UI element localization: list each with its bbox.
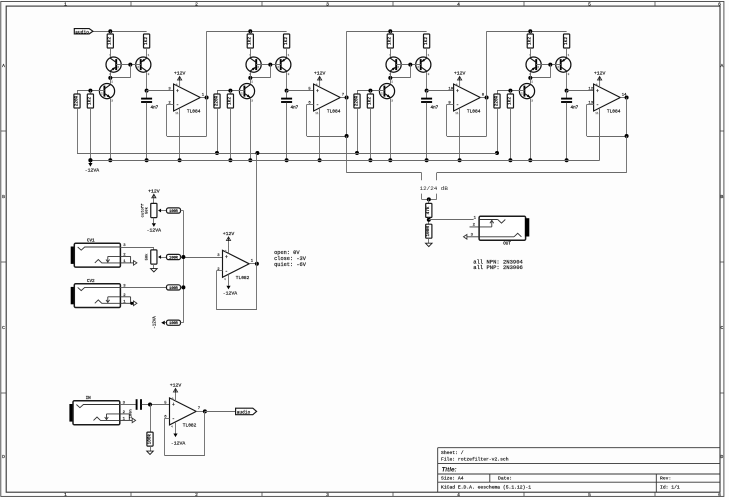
- svg-text:-: -: [172, 416, 175, 422]
- transistor Q2a (PNP): [246, 54, 261, 76]
- transistor Q4b (PNP): [556, 54, 571, 76]
- resistor R2a 1k2: [247, 34, 253, 48]
- transistor Q4a (PNP): [526, 54, 541, 76]
- node stage 4 output junction: [625, 96, 629, 100]
- svg-text:-: -: [456, 102, 459, 108]
- resistor R4d 1k2: [507, 94, 513, 108]
- wire R4b to Q4b: [566, 48, 568, 57]
- wire Q3c emitter to -12VA bus: [390, 99, 392, 161]
- svg-text:-12VA: -12VA: [147, 228, 162, 234]
- resistor R2d 1k2: [227, 94, 233, 108]
- op-amp TL082: [164, 394, 200, 429]
- node op-amp V- bus junction stage 3: [458, 158, 462, 162]
- svg-text:3: 3: [326, 492, 329, 498]
- wire Q1c emitter to -12VA bus: [110, 99, 112, 161]
- power +12V: [594, 71, 606, 81]
- node R2d bus junction: [228, 158, 232, 162]
- svg-text:-12VA: -12VA: [153, 316, 157, 329]
- resistor Rout1 47k: [426, 203, 432, 217]
- node stage 2 tap junction: [345, 134, 349, 138]
- wire Rc top lead stage 3: [357, 91, 359, 94]
- node stage 1 mirror junction: [108, 76, 112, 80]
- transistor Q1a (PNP): [106, 54, 121, 76]
- wire C3 to -12VA bus: [426, 103, 428, 160]
- resistor R1a 1k2: [107, 34, 113, 48]
- title block outline: [438, 448, 720, 493]
- wire Rout2 to ground: [428, 238, 430, 243]
- node R4d bus junction: [508, 158, 512, 162]
- wire Rcv2 to TL082 pin3: [181, 257, 223, 259]
- wire Q4a emitter: [530, 72, 532, 78]
- wire Q1b emitter: [146, 72, 148, 91]
- svg-text:CV2: CV2: [87, 279, 95, 284]
- node CV sum junction 2: [181, 285, 185, 289]
- svg-text:50k: 50k: [144, 206, 149, 214]
- wire output to audio label: [205, 411, 236, 413]
- resistor Rcv3 100R: [167, 285, 181, 291]
- wire feedback stage 1: [167, 104, 174, 106]
- wire cap to op-amp: [142, 404, 170, 406]
- svg-text:OUT: OUT: [503, 242, 511, 246]
- svg-text:11: 11: [175, 112, 179, 115]
- resistor R4b 1k2: [564, 34, 570, 48]
- wire IN pin3 to cap: [120, 404, 136, 406]
- capacitor C2 4n7: [281, 99, 299, 111]
- wire Rc top lead stage 2: [217, 91, 219, 94]
- svg-text:Size: A4: Size: A4: [441, 476, 464, 482]
- resistor R2c 220R: [214, 94, 220, 108]
- wire R2d to -12VA bus: [230, 108, 232, 160]
- wire resistor 390.3 top lead: [390, 31, 392, 34]
- resistor R3b 1k2: [424, 34, 430, 48]
- ground: [151, 269, 158, 272]
- svg-text:6: 6: [718, 492, 721, 498]
- svg-text:12: 12: [588, 88, 593, 92]
- wire Q1a emitter: [110, 72, 112, 78]
- svg-text:1k2: 1k2: [284, 37, 289, 45]
- power -12VA: [223, 286, 238, 297]
- node R3c CV bus junction: [355, 151, 359, 155]
- wire base row stage 3: [357, 90, 384, 92]
- wire Q4c emitter to -12VA bus: [530, 99, 532, 161]
- wire -12VA bus end up to stage4 V-: [599, 108, 601, 160]
- wire base link stage 1: [116, 64, 141, 66]
- resistor R3d 1k2: [367, 94, 373, 108]
- wire CV feed up to bus: [256, 153, 258, 264]
- svg-text:1k2: 1k2: [228, 97, 233, 105]
- wire -12VA bus horizontal: [90, 160, 599, 162]
- svg-text:A: A: [2, 63, 5, 69]
- op-amp TL082: [217, 247, 253, 282]
- node stage 4 tap junction: [625, 134, 629, 138]
- svg-text:B: B: [721, 194, 724, 200]
- wire output up to next stage 1: [206, 31, 208, 97]
- wire Q2b emitter: [286, 72, 288, 91]
- svg-text:100R: 100R: [169, 210, 178, 214]
- svg-text:1k2: 1k2: [388, 37, 393, 45]
- svg-text:5: 5: [588, 492, 591, 498]
- resistor R1d 1k2: [87, 94, 93, 108]
- svg-text:Title:: Title:: [442, 467, 457, 474]
- node C1 bus junction: [145, 158, 149, 162]
- svg-text:50k: 50k: [144, 253, 149, 261]
- wire resistor 250.3 top lead: [250, 31, 252, 34]
- transistor Q2c (NPN): [239, 81, 254, 103]
- op-amp TL084: [308, 80, 344, 115]
- transistor Q3c (NPN): [379, 81, 394, 103]
- potentiometer RV cv1 50k: [144, 250, 161, 264]
- svg-text:-12VA: -12VA: [85, 167, 100, 173]
- wire op-amp output stage 3: [480, 97, 486, 99]
- transistor Q4c (NPN): [519, 81, 534, 103]
- node stage 1 base junction: [128, 63, 132, 67]
- svg-text:5: 5: [588, 1, 591, 7]
- node stage 4 mirror junction: [528, 76, 532, 80]
- node Q3c emitter bus junction: [388, 158, 392, 162]
- power +12V: [223, 231, 235, 247]
- wire -12VA trim to resistor: [165, 322, 167, 324]
- wire R3c to CV bus: [357, 108, 359, 153]
- svg-text:+12V: +12V: [148, 188, 160, 194]
- power +12V: [170, 383, 182, 395]
- svg-text:4n7: 4n7: [431, 105, 439, 110]
- wire Rd top lead stage 3: [370, 91, 372, 94]
- wire C2 to -12VA bus: [286, 103, 288, 160]
- svg-text:+12V: +12V: [223, 231, 235, 237]
- wire top feed stage 3: [347, 31, 427, 33]
- svg-text:+: +: [172, 402, 175, 408]
- wire Rd top lead stage 1: [90, 91, 92, 94]
- wire TL082b V-: [175, 422, 177, 434]
- svg-text:1: 1: [64, 492, 67, 498]
- wire Q2a emitter: [250, 72, 252, 78]
- capacitor C input 100n: [137, 399, 141, 410]
- node stage 1 base-resistor junction: [88, 89, 92, 93]
- node stage 4 input junction: [528, 29, 532, 33]
- node op-amp V- bus junction stage 2: [318, 158, 322, 162]
- node stage 2 input junction: [248, 29, 252, 33]
- transistor Q3a (PNP): [386, 54, 401, 76]
- wire base junction down: [550, 65, 552, 78]
- svg-text:11: 11: [315, 112, 319, 115]
- node Q2c emitter bus junction: [248, 158, 252, 162]
- svg-text:1k2: 1k2: [368, 97, 373, 105]
- svg-text:TL082: TL082: [236, 275, 250, 281]
- svg-text:Date:: Date:: [498, 476, 512, 482]
- wire cap top lead stage 4: [566, 91, 568, 98]
- wire resistor 110.3 top lead: [110, 31, 112, 34]
- frame row ticks: [1, 131, 724, 393]
- op-amp TL084: [168, 80, 204, 115]
- svg-text:+: +: [176, 88, 179, 94]
- svg-text:12/24 dB: 12/24 dB: [420, 185, 449, 192]
- wire C4 to -12VA bus: [566, 103, 568, 160]
- wire to R out top: [428, 199, 430, 203]
- wire output to jack: [429, 219, 474, 221]
- svg-text:+12V: +12V: [454, 71, 466, 77]
- transistor Q1c (NPN): [99, 81, 114, 103]
- svg-text:Id: 1/1: Id: 1/1: [660, 484, 680, 490]
- wire Rcv1 to CV sum bus: [181, 210, 184, 212]
- svg-text:C: C: [721, 325, 724, 331]
- wire Rcv3 to CV sum bus: [181, 287, 184, 289]
- svg-text:quiet: -6V: quiet: -6V: [274, 262, 307, 268]
- frame column ticks top: [131, 2, 655, 497]
- svg-text:audio: audio: [237, 411, 251, 416]
- global label audio (output): [236, 408, 257, 415]
- svg-text:4: 4: [457, 492, 460, 498]
- svg-text:220R: 220R: [74, 95, 79, 106]
- svg-text:47k: 47k: [426, 206, 431, 214]
- svg-text:File: rotzefilter-v2.sch: File: rotzefilter-v2.sch: [441, 456, 509, 462]
- svg-text:3: 3: [326, 1, 329, 7]
- svg-text:+: +: [225, 255, 228, 261]
- node stage 2 signal node: [285, 89, 289, 93]
- wire output up to next stage 3: [486, 31, 488, 97]
- no-connect arrow OUT pin3: [464, 235, 467, 240]
- wire CV sum bus vertical: [183, 211, 185, 323]
- wire output up to next stage 2: [346, 31, 348, 97]
- wire CV bus horizontal: [77, 153, 497, 155]
- resistor Rcv4 100R: [167, 320, 181, 326]
- svg-text:KiCad E.D.A. eeschema (5.1.12: KiCad E.D.A. eeschema (5.1.12)-1: [441, 484, 531, 490]
- jack CV1: [71, 239, 137, 267]
- power -12VA trim feed: [153, 316, 165, 329]
- wire Rc top lead stage 1: [77, 91, 79, 94]
- wire CV1 pin3 to pot: [120, 247, 153, 249]
- svg-text:100k: 100k: [147, 433, 152, 444]
- node TL082a output junction: [255, 262, 259, 266]
- svg-text:100n: 100n: [129, 409, 133, 418]
- resistor R3a 1k2: [387, 34, 393, 48]
- wire R3a to Q3a: [390, 48, 392, 57]
- node stage 2 output junction: [345, 96, 349, 100]
- wire base junction down: [410, 65, 412, 78]
- wire Q1c collector: [110, 78, 112, 84]
- wire R1b to Q1b: [146, 48, 148, 57]
- wire base junction down: [130, 65, 132, 78]
- resistor Rout2 100R: [426, 224, 432, 238]
- node stage 1 signal node: [145, 89, 149, 93]
- power -12VA bus flag: [85, 160, 100, 173]
- node -12VA start junction: [88, 158, 92, 162]
- node stage 3 signal node: [425, 89, 429, 93]
- svg-text:100R: 100R: [169, 287, 178, 291]
- svg-text:TL084: TL084: [467, 109, 481, 115]
- node Q1c emitter bus junction: [108, 158, 112, 162]
- svg-text:-12VA: -12VA: [223, 291, 238, 297]
- node CV sum junction 1: [181, 255, 185, 259]
- wire 24dB tap: [626, 136, 628, 173]
- svg-text:1k2: 1k2: [564, 37, 569, 45]
- jack CV2: [71, 279, 137, 307]
- node stage 1 output junction: [205, 96, 209, 100]
- svg-text:+12V: +12V: [170, 383, 182, 389]
- svg-text:D: D: [721, 454, 724, 460]
- wire R4c to CV bus: [497, 108, 499, 153]
- svg-text:1k2: 1k2: [248, 37, 253, 45]
- wire Q2c emitter to -12VA bus: [250, 99, 252, 161]
- title block texts: [441, 450, 680, 490]
- op-amp TL084: [448, 80, 484, 115]
- svg-text:10: 10: [448, 88, 453, 92]
- wire base junction down: [270, 65, 272, 78]
- wire cutoff pot to -12VA: [153, 218, 155, 224]
- wire cap top lead stage 3: [426, 91, 428, 98]
- svg-text:2: 2: [195, 1, 198, 7]
- svg-text:-: -: [176, 102, 179, 108]
- svg-text:2: 2: [195, 492, 198, 498]
- svg-text:+: +: [596, 88, 599, 94]
- svg-text:4: 4: [457, 1, 460, 7]
- svg-text:D: D: [2, 454, 5, 460]
- svg-text:11: 11: [455, 112, 459, 115]
- svg-text:C: C: [2, 325, 5, 331]
- wire resistor 530.3 top lead: [530, 31, 532, 34]
- svg-text:4n7: 4n7: [151, 105, 159, 110]
- node stage 3 base-resistor junction: [368, 89, 372, 93]
- svg-text:220R: 220R: [494, 95, 499, 106]
- wire cutoff wiper: [161, 210, 167, 212]
- wire Q4b emitter: [566, 72, 568, 91]
- resistor Rcv1 100R: [167, 208, 181, 214]
- wire R1d to -12VA bus: [90, 108, 92, 160]
- wire Rcv4 to CV sum bus: [181, 322, 184, 324]
- svg-text:1k2: 1k2: [424, 37, 429, 45]
- node stage 2 base-resistor junction: [228, 89, 232, 93]
- node stage 3 base junction: [408, 63, 412, 67]
- potentiometer RV cutoff 50k: [140, 203, 161, 218]
- resistor R4a 1k2: [527, 34, 533, 48]
- wire switch stubs: [421, 194, 423, 200]
- wire Rd top lead stage 4: [510, 91, 512, 94]
- wire op-amp +input stage 2: [287, 90, 314, 92]
- wire base row stage 1: [77, 90, 104, 92]
- wire feedback stage 2: [307, 104, 314, 106]
- wire C1 to -12VA bus: [146, 103, 148, 160]
- node stage 4 base-resistor junction: [508, 89, 512, 93]
- wire R2b to Q2b: [286, 48, 288, 57]
- wire +12V to cutoff pot: [153, 198, 155, 203]
- wire R2a to Q2a: [250, 48, 252, 57]
- wire op-amp output stage 4: [620, 97, 626, 99]
- svg-text:TL084: TL084: [607, 109, 621, 115]
- svg-text:100R: 100R: [169, 257, 178, 261]
- wire CV1 pot to ground: [153, 264, 155, 269]
- wire cap top lead stage 2: [286, 91, 288, 98]
- node C4 bus junction: [565, 158, 569, 162]
- wire top feed stage 2: [207, 31, 287, 33]
- svg-text:B: B: [2, 194, 5, 200]
- power +12V: [314, 71, 326, 81]
- svg-text:-: -: [225, 268, 228, 274]
- resistor R1c 220R: [74, 94, 80, 108]
- jack IN: [69, 396, 135, 425]
- node stage 1 input junction: [108, 29, 112, 33]
- node input bias junction: [148, 403, 152, 407]
- svg-text:IN: IN: [86, 396, 92, 401]
- wire CV2 pin3 row: [120, 287, 166, 289]
- svg-text:220R: 220R: [214, 95, 219, 106]
- node op-amp V- bus junction stage 1: [178, 158, 182, 162]
- node R2c CV bus junction: [215, 151, 219, 155]
- resistor R3c 220R: [354, 94, 360, 108]
- svg-text:1k2: 1k2: [108, 37, 113, 45]
- wire base link stage 2: [256, 64, 281, 66]
- node stage 2 mirror junction: [248, 76, 252, 80]
- wire TL082a output: [249, 263, 257, 265]
- node switch junction: [427, 197, 431, 201]
- node C2 bus junction: [285, 158, 289, 162]
- capacitor C1 4n7: [141, 99, 159, 111]
- svg-text:A: A: [721, 63, 724, 69]
- wire R3b to Q3b: [426, 48, 428, 57]
- power -12VA: [171, 434, 186, 447]
- wire Q3c collector: [390, 78, 392, 84]
- wire R1a to Q1a: [110, 48, 112, 57]
- wire base row stage 4: [497, 90, 524, 92]
- svg-text:Sheet: /: Sheet: /: [441, 450, 464, 456]
- resistor Rin 100k: [147, 432, 153, 446]
- node output divider junction: [427, 218, 431, 222]
- resistor R4c 220R: [494, 94, 500, 108]
- svg-text:1: 1: [64, 1, 67, 7]
- svg-text:-: -: [596, 102, 599, 108]
- node R3d bus junction: [368, 158, 372, 162]
- svg-text:100R: 100R: [169, 322, 178, 326]
- transistor Q2b (PNP): [276, 54, 291, 76]
- wire op-amp +input stage 3: [427, 90, 454, 92]
- wire 12dB tap: [346, 136, 348, 173]
- wire R1c to CV bus: [77, 108, 79, 153]
- wire TL082a V-: [228, 274, 230, 285]
- wire Q3a emitter: [390, 72, 392, 78]
- svg-text:TL082: TL082: [183, 422, 197, 428]
- wire cap top lead stage 1: [146, 91, 148, 98]
- wire op-amp +input stage 4: [567, 90, 594, 92]
- capacitor C4 4n7: [561, 99, 579, 111]
- node stage 4 base junction: [548, 63, 552, 67]
- wire op-amp output stage 1: [200, 97, 206, 99]
- svg-text:TL084: TL084: [187, 109, 201, 115]
- wire Rd top lead stage 2: [230, 91, 232, 94]
- wire base link stage 4: [536, 64, 561, 66]
- wire op-amp V- stage 2: [319, 108, 321, 160]
- resistor R1b 1k2: [144, 34, 150, 48]
- wire base row stage 2: [217, 90, 244, 92]
- svg-text:all PNP: 2N3906: all PNP: 2N3906: [473, 264, 523, 271]
- wire TL082b output: [196, 411, 205, 413]
- svg-text:-12VA: -12VA: [171, 440, 186, 446]
- ground: [147, 451, 154, 454]
- svg-text:Rev:: Rev:: [660, 475, 671, 481]
- wire op-amp +input stage 1: [147, 90, 174, 92]
- wire TL082b feedback: [165, 418, 170, 420]
- wire Q4c collector: [530, 78, 532, 84]
- wire Rin to ground: [150, 446, 152, 451]
- svg-text:CV1: CV1: [87, 239, 95, 244]
- wire Q2c collector: [250, 78, 252, 84]
- power +12V: [174, 71, 186, 81]
- svg-text:-: -: [316, 102, 319, 108]
- svg-text:+12V: +12V: [314, 71, 326, 77]
- svg-text:11: 11: [595, 112, 599, 115]
- wire R2c to CV bus: [217, 108, 219, 153]
- global label audio (input feed): [74, 29, 93, 36]
- op-amp TL084: [588, 80, 627, 115]
- svg-text:+: +: [316, 88, 319, 94]
- power -12VA: [147, 223, 162, 233]
